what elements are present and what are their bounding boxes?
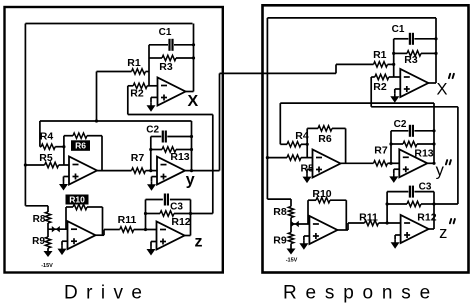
svg-text:R8: R8 [33, 214, 46, 225]
svg-text:R12: R12 [417, 211, 436, 223]
svg-text:R10: R10 [69, 195, 85, 205]
svg-text:R7: R7 [131, 152, 145, 164]
svg-text:R4: R4 [40, 131, 54, 143]
svg-text:Response: Response [283, 283, 439, 304]
svg-text:R11: R11 [359, 211, 378, 223]
svg-text:-15V: -15V [286, 258, 298, 264]
svg-text:z: z [195, 234, 203, 251]
svg-text:y: y [186, 172, 195, 189]
svg-text:R9: R9 [32, 236, 45, 247]
svg-text:R5: R5 [300, 162, 314, 174]
svg-text:y: y [436, 162, 445, 180]
svg-text:R13: R13 [170, 151, 189, 163]
svg-text:-15V: -15V [41, 263, 53, 269]
svg-text:C3: C3 [419, 182, 432, 193]
svg-text:R7: R7 [374, 145, 388, 157]
svg-text:R1: R1 [373, 49, 387, 61]
svg-text:R10: R10 [312, 188, 331, 200]
svg-text:C3: C3 [170, 202, 183, 213]
svg-text:R8: R8 [273, 206, 287, 218]
svg-text:z: z [439, 224, 447, 242]
svg-text:R9: R9 [273, 235, 287, 247]
svg-text:Drive: Drive [64, 283, 150, 304]
svg-text:R2: R2 [130, 88, 144, 100]
svg-text:R4: R4 [295, 130, 309, 142]
svg-text:R6: R6 [75, 141, 86, 151]
svg-text:X: X [436, 81, 447, 99]
svg-text:C2: C2 [394, 119, 407, 130]
svg-text:R11: R11 [118, 214, 137, 226]
svg-text:C1: C1 [392, 24, 405, 35]
svg-text:C1: C1 [159, 27, 172, 38]
svg-text:R3: R3 [404, 54, 418, 66]
svg-text:R13: R13 [414, 148, 433, 160]
svg-text:R12: R12 [171, 216, 190, 228]
svg-text:X: X [187, 93, 198, 110]
svg-text:R5: R5 [39, 152, 53, 164]
svg-text:R6: R6 [318, 133, 332, 145]
svg-text:R3: R3 [159, 61, 173, 73]
svg-text:R1: R1 [127, 57, 141, 69]
svg-text:C2: C2 [146, 125, 159, 136]
svg-text:R2: R2 [373, 81, 387, 93]
